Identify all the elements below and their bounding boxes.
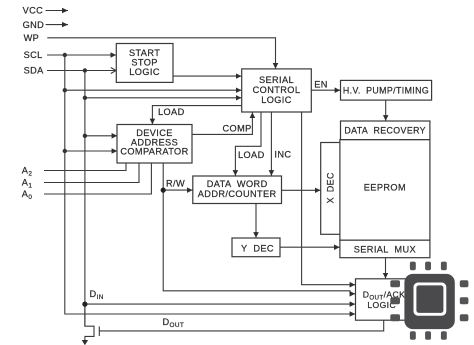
ground bbox=[82, 340, 88, 345]
wire SCL bus vertical to DOUT/ACK bbox=[65, 55, 355, 314]
wire INC bbox=[270, 112, 272, 176]
box U10 Y DEC bbox=[232, 238, 280, 257]
svg-text:LOAD: LOAD bbox=[158, 107, 185, 117]
wire serial control to DOUT/ACK bbox=[302, 112, 356, 285]
box U3 HV PUMP/TIMING bbox=[341, 80, 432, 100]
node R/W bbox=[161, 188, 166, 193]
wire COMP bbox=[192, 112, 252, 134]
svg-text:DATA WORD: DATA WORD bbox=[207, 179, 268, 189]
box U5 DATA RECOVERY bbox=[341, 121, 430, 140]
svg-text:ADDR/COUNTER: ADDR/COUNTER bbox=[198, 189, 277, 199]
svg-text:LOGIC: LOGIC bbox=[261, 95, 292, 105]
svg-text:X DEC: X DEC bbox=[325, 172, 335, 203]
wire A0 bbox=[44, 163, 151, 194]
wire SDA to serial control bbox=[85, 97, 242, 99]
chip icon watermark bbox=[390, 262, 468, 340]
svg-text:VCC: VCC bbox=[23, 6, 44, 16]
wire EN bbox=[311, 89, 340, 91]
wire data word to Y DEC bbox=[255, 204, 257, 238]
node SDA-comparator bbox=[83, 134, 87, 138]
wire R/W vertical to DOUT/ACK bbox=[163, 163, 355, 294]
wire SCL to comparator bbox=[65, 150, 117, 152]
wire A1 bbox=[44, 163, 139, 183]
svg-text:EEPROM: EEPROM bbox=[364, 182, 406, 192]
wire GND bbox=[46, 24, 68, 26]
wire HV pump to data recovery bbox=[385, 100, 387, 121]
wire R/W to data word counter bbox=[163, 189, 192, 191]
svg-text:WP: WP bbox=[24, 33, 40, 43]
svg-text:Y DEC: Y DEC bbox=[241, 243, 274, 253]
wire SDA to comparator bbox=[85, 135, 117, 137]
node SCL-serial bbox=[63, 88, 67, 92]
svg-text:H.V. PUMP/TIMING: H.V. PUMP/TIMING bbox=[343, 85, 429, 95]
wire SCL to serial control bbox=[65, 89, 242, 91]
wire SDA bbox=[47, 68, 116, 74]
box U9 DATA WORD ADDR/COUNTER bbox=[193, 176, 282, 204]
wire WP bbox=[47, 38, 275, 69]
svg-text:LOAD: LOAD bbox=[238, 150, 265, 160]
svg-text:LOGIC: LOGIC bbox=[129, 67, 160, 77]
node SCL-SCLline bbox=[63, 53, 67, 57]
box U2 SERIAL CONTROL LOGIC bbox=[242, 69, 312, 112]
svg-text:SCL: SCL bbox=[24, 50, 43, 60]
svg-text:INC: INC bbox=[274, 150, 291, 160]
svg-text:EN: EN bbox=[314, 80, 328, 90]
svg-text:DATA RECOVERY: DATA RECOVERY bbox=[344, 126, 426, 136]
node SCL-comparator bbox=[63, 149, 67, 153]
box U11 DOUT/ACK LOGIC bbox=[356, 279, 409, 320]
wire Y DEC to serial mux bbox=[280, 246, 340, 248]
box U7 SERIAL MUX bbox=[340, 240, 430, 258]
wire data word to X DEC bbox=[282, 189, 321, 191]
box U6 X DEC bbox=[321, 143, 340, 235]
svg-text:COMP: COMP bbox=[223, 124, 252, 134]
wire LOAD to comparator bbox=[152, 106, 241, 125]
wire SDA bus vertical bbox=[84, 71, 86, 327]
box U8 DEVICE ADDRESS COMPARATOR bbox=[117, 125, 192, 164]
node SDA-SDAline bbox=[83, 68, 87, 72]
svg-text:R/W: R/W bbox=[166, 179, 185, 189]
wire LOAD to data word counter bbox=[235, 112, 261, 176]
wire DOUT bbox=[99, 320, 383, 331]
svg-text:COMPARATOR: COMPARATOR bbox=[120, 147, 188, 157]
box U1 START STOP LOGIC bbox=[116, 44, 173, 83]
wire serial mux to DOUT/ACK bbox=[385, 258, 387, 279]
box U4 EEPROM array bbox=[340, 140, 430, 241]
wire DIN bbox=[85, 303, 355, 305]
node SDA-serial bbox=[83, 96, 87, 100]
svg-text:SERIAL: SERIAL bbox=[259, 75, 294, 85]
node DIN bbox=[82, 302, 87, 307]
wire SCL bbox=[47, 54, 116, 56]
transistor Q1 output driver bbox=[85, 304, 99, 340]
svg-text:CONTROL: CONTROL bbox=[253, 85, 301, 95]
wire start/stop to serial control bbox=[173, 75, 241, 77]
wire A2 bbox=[44, 163, 126, 171]
svg-text:GND: GND bbox=[23, 20, 45, 30]
svg-text:SERIAL MUX: SERIAL MUX bbox=[354, 244, 416, 254]
svg-text:SDA: SDA bbox=[24, 66, 45, 76]
wire VCC bbox=[46, 10, 68, 12]
